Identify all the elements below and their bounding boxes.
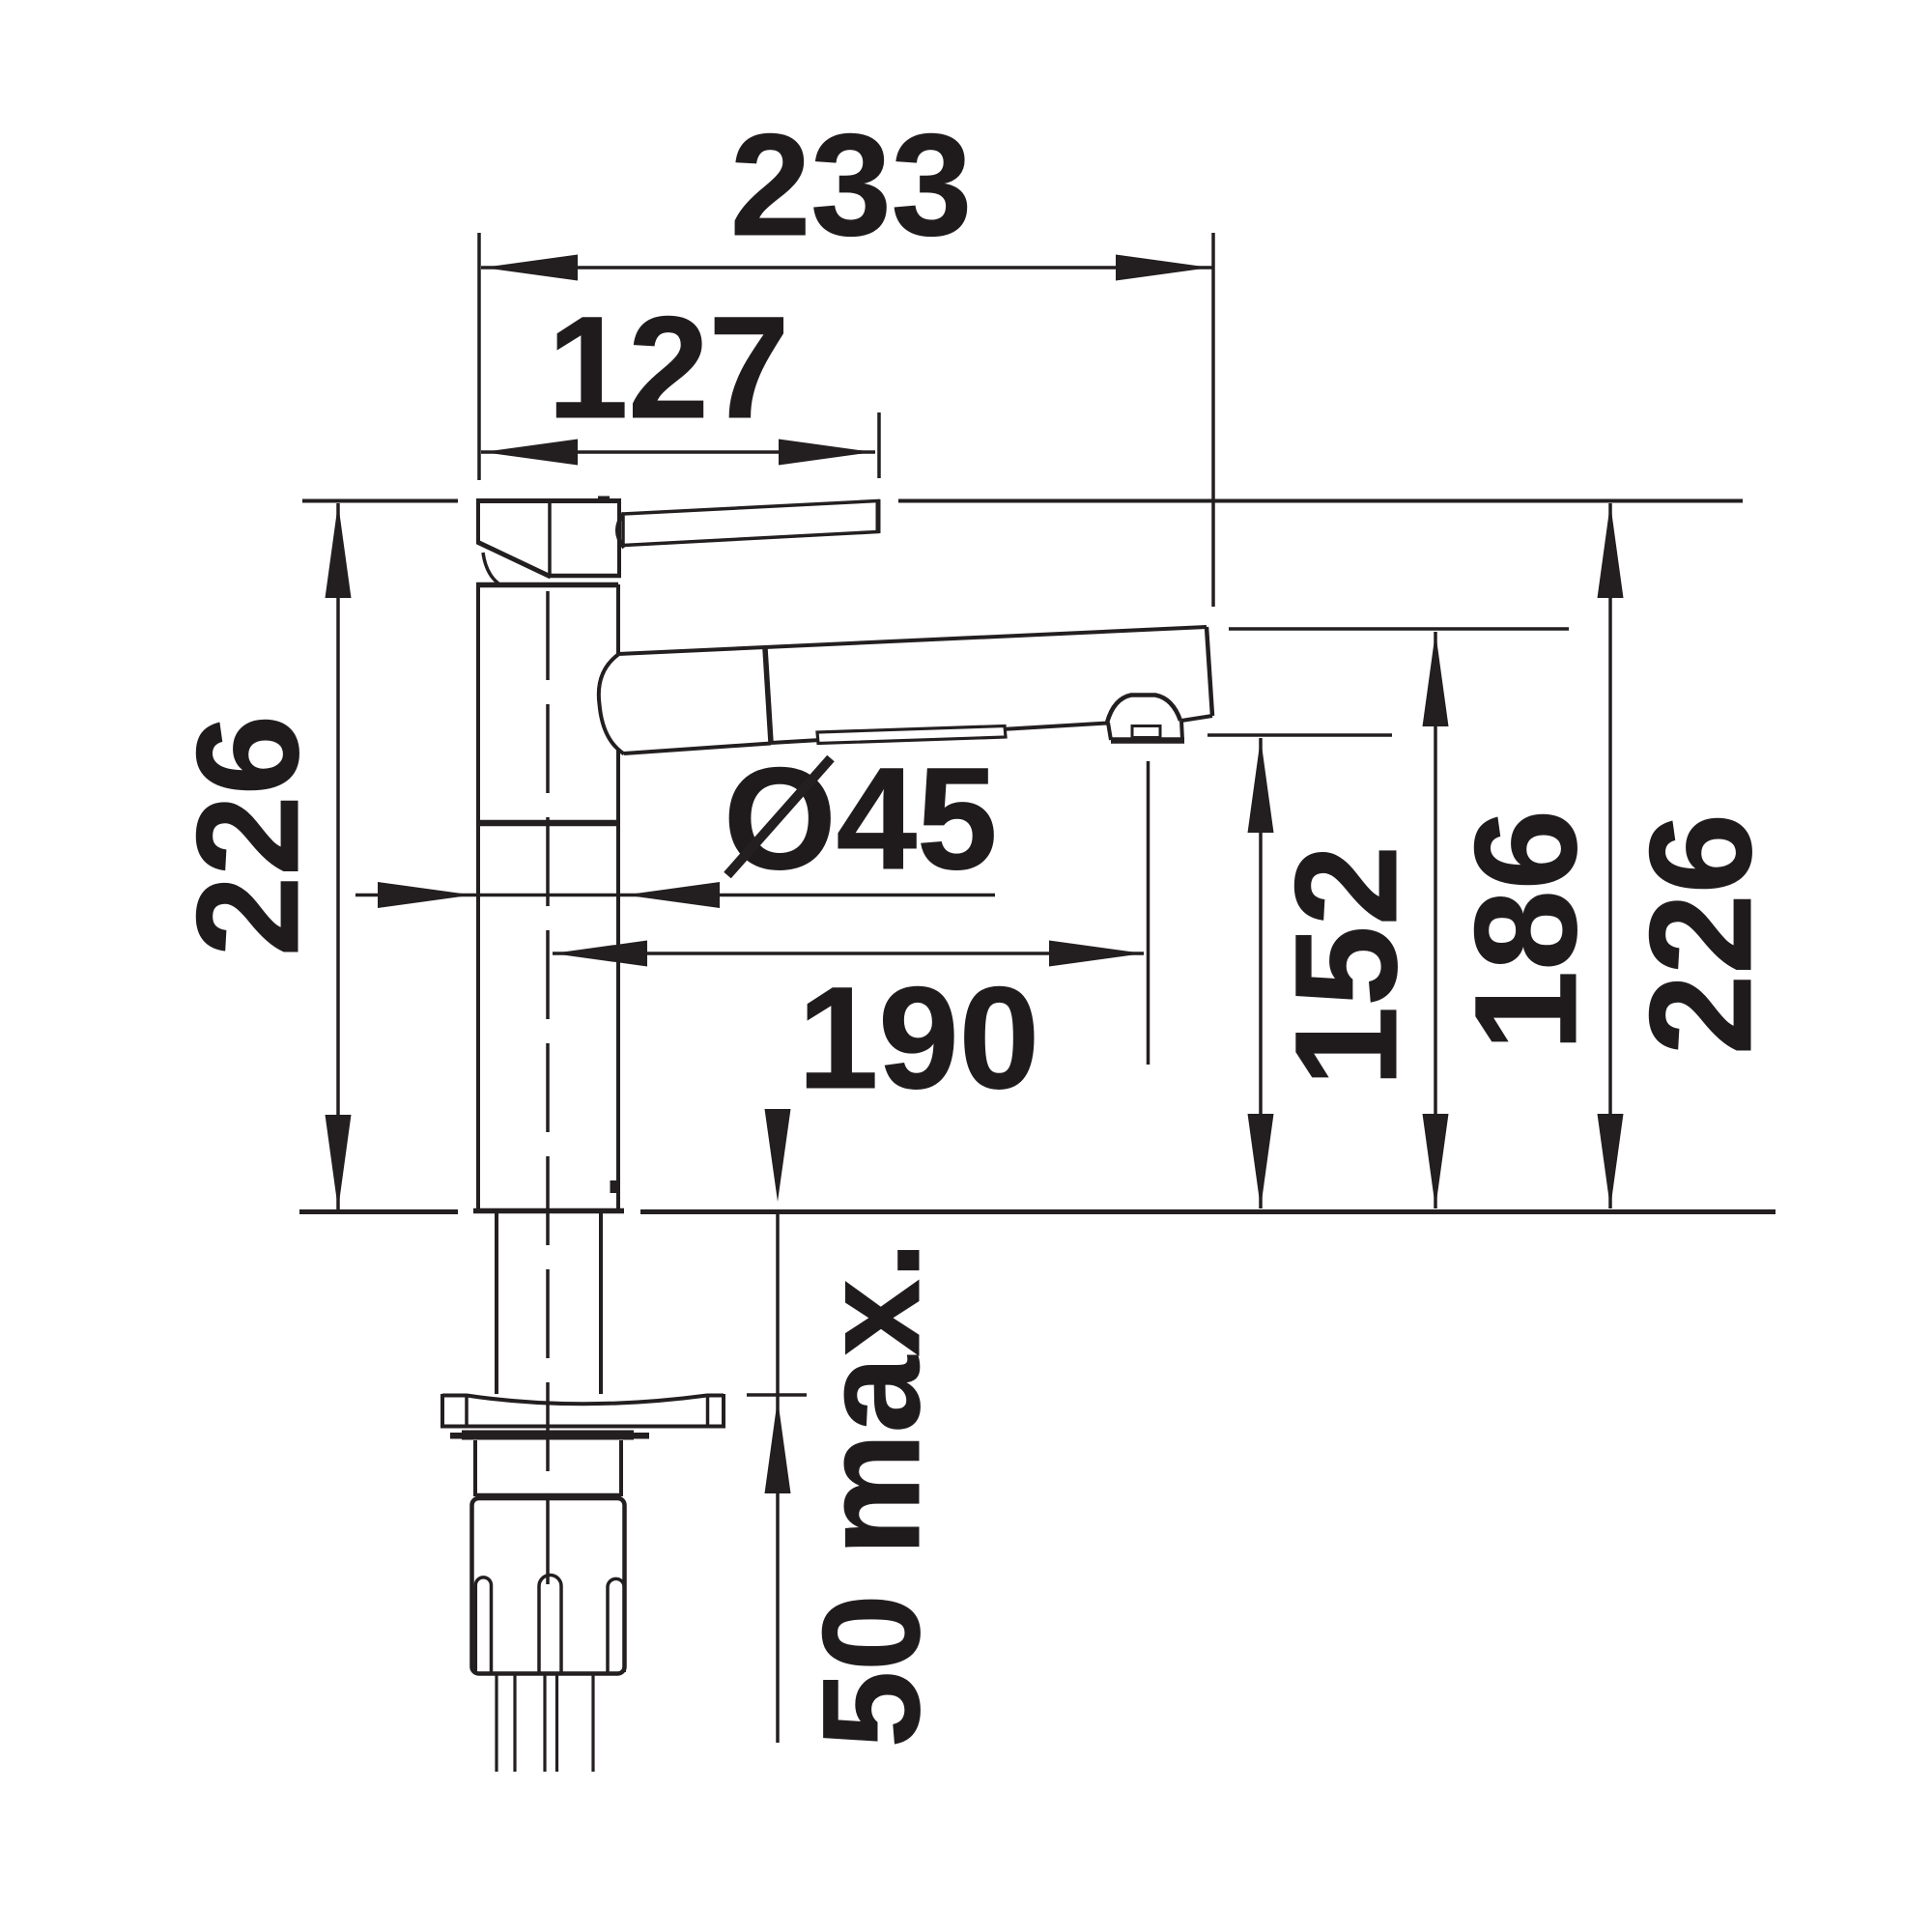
dimension 190 <box>553 761 1149 1065</box>
dimension 152 <box>1248 738 1274 1208</box>
socket 3 <box>608 1578 624 1672</box>
dimension 226 right <box>1598 503 1624 1208</box>
svg-text:190: 190 <box>798 956 1039 1119</box>
socket 2 <box>539 1576 561 1673</box>
faucet body column <box>473 584 624 1211</box>
svg-text:O45: O45 <box>724 737 998 899</box>
svg-text:127: 127 <box>548 286 789 448</box>
svg-text:50 max.: 50 max. <box>795 1241 949 1748</box>
dimension 186 <box>1423 632 1449 1208</box>
dimension O45 <box>355 882 995 908</box>
top reference line left <box>302 499 458 503</box>
svg-text:152: 152 <box>1264 845 1427 1087</box>
threaded shank <box>475 1440 621 1496</box>
counter line right <box>640 1209 1776 1214</box>
lever handle <box>623 499 878 546</box>
connector block <box>472 1498 625 1674</box>
svg-text:186: 186 <box>1444 810 1606 1051</box>
shank below counter <box>497 1213 601 1394</box>
dimension 50 max <box>747 1109 807 1743</box>
186 reference line <box>1229 627 1569 631</box>
svg-text:233: 233 <box>730 103 972 266</box>
spout outlet rect <box>1132 726 1160 738</box>
supply pipes <box>497 1675 593 1772</box>
faucet head cap <box>476 497 621 584</box>
counter line left <box>299 1209 458 1214</box>
spout pull-out head <box>599 627 1212 754</box>
152 reference line <box>1207 733 1392 737</box>
lever hinge <box>617 513 624 548</box>
svg-text:226: 226 <box>166 715 328 956</box>
dimension 226 left <box>326 503 352 1209</box>
mounting flange <box>440 1394 725 1427</box>
centre dashed line <box>546 591 550 1586</box>
spout aerator dome <box>1107 696 1180 724</box>
rubber seal <box>450 1431 649 1440</box>
body clip mark <box>611 1180 618 1193</box>
svg-text:226: 226 <box>1619 813 1781 1055</box>
top reference line right <box>898 499 1743 503</box>
spout grip bar <box>817 726 1006 744</box>
dimension 233 <box>479 233 1213 607</box>
socket 1 <box>475 1577 491 1672</box>
dimension 127 <box>481 412 879 478</box>
